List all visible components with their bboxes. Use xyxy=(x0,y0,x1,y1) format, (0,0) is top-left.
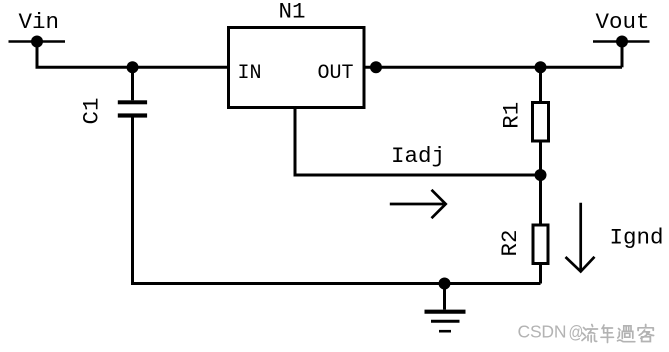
wire C1 bottom to ground rail xyxy=(133,117,541,283)
watermark glyph guo xyxy=(618,326,635,342)
svg-text:Ignd: Ignd xyxy=(610,225,664,251)
wire Vin to IN pin xyxy=(37,42,229,68)
net label Vout xyxy=(596,9,650,35)
terminal Vin xyxy=(9,36,66,48)
junction node ground xyxy=(439,278,451,290)
capacitor C1 xyxy=(118,67,147,117)
wire ADJ pin to R1/R2 node xyxy=(295,109,541,175)
svg-text:Iadj: Iadj xyxy=(391,143,445,169)
svg-text:R1: R1 xyxy=(499,102,525,129)
svg-text:IN: IN xyxy=(238,62,262,85)
watermark glyph liu xyxy=(582,325,598,343)
junction node R1 top xyxy=(535,61,547,73)
regulator N1 box xyxy=(229,28,365,108)
svg-text:CSDN: CSDN xyxy=(518,322,567,342)
svg-text:OUT: OUT xyxy=(318,62,354,85)
pin label OUT xyxy=(318,62,354,85)
pin label IN xyxy=(238,62,262,85)
resistor R2 label xyxy=(497,229,523,256)
net label Vin xyxy=(19,9,60,35)
wire OUT to Vout xyxy=(365,66,622,69)
svg-text:N1: N1 xyxy=(279,0,306,25)
watermark glyph nian xyxy=(601,325,614,343)
regulator N1 label xyxy=(279,0,306,25)
resistor R1 xyxy=(533,67,549,175)
svg-text:Vout: Vout xyxy=(596,9,650,35)
net label Ignd xyxy=(610,225,664,251)
capacitor C1 label xyxy=(79,97,105,124)
current arrow Ignd xyxy=(566,203,595,272)
net label Iadj xyxy=(391,143,445,169)
junction node OUT pin xyxy=(370,61,382,73)
junction node adj xyxy=(535,169,547,181)
junction node C1/Vin xyxy=(127,61,139,73)
svg-text:R2: R2 xyxy=(497,229,523,256)
watermark glyph ke xyxy=(638,325,653,342)
svg-text:Vin: Vin xyxy=(19,9,60,35)
resistor R1 label xyxy=(499,102,525,129)
watermark CSDN xyxy=(518,322,584,343)
current arrow Iadj xyxy=(390,190,446,218)
svg-text:C1: C1 xyxy=(79,97,105,124)
resistor R2 xyxy=(533,175,548,284)
svg-text:@: @ xyxy=(569,323,584,342)
terminal Vout xyxy=(593,36,650,68)
ground symbol xyxy=(425,284,466,332)
